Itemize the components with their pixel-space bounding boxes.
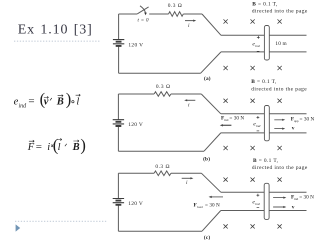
svg-text:t = 0: t = 0: [138, 19, 149, 24]
svg-text:120 V: 120 V: [128, 42, 143, 48]
svg-text:ind: ind: [224, 118, 228, 122]
svg-text:(a): (a): [204, 75, 211, 82]
svg-text:i: i: [188, 23, 190, 29]
svg-text:load: load: [197, 205, 203, 209]
svg-text:= 30 N: = 30 N: [299, 194, 314, 200]
svg-text:B: B: [56, 96, 64, 107]
svg-text:l: l: [76, 96, 79, 107]
svg-text:directed into the page: directed into the page: [251, 86, 307, 92]
svg-text:ind: ind: [255, 202, 260, 206]
svg-text:directed into the page: directed into the page: [252, 165, 308, 171]
svg-text:i: i: [47, 142, 50, 153]
svg-text:(c): (c): [204, 234, 211, 240]
svg-text:B = 0.1 T,: B = 0.1 T,: [251, 79, 277, 85]
svg-text:= 30 N: = 30 N: [300, 117, 315, 123]
svg-text:B = 0.1 T,: B = 0.1 T,: [253, 158, 279, 164]
svg-text:ind: ind: [294, 197, 298, 201]
svg-text:): ): [80, 135, 86, 154]
svg-text:10 m: 10 m: [275, 41, 287, 47]
svg-text:i: i: [188, 102, 190, 108]
svg-text:ind: ind: [255, 44, 260, 48]
svg-text:ind: ind: [19, 103, 28, 109]
svg-text:0.3 Ω: 0.3 Ω: [155, 164, 170, 170]
svg-text:v: v: [292, 205, 295, 211]
svg-text:): ): [66, 90, 72, 109]
svg-text:l: l: [58, 142, 61, 153]
svg-text:B = 0.1 T,: B = 0.1 T,: [252, 2, 278, 8]
svg-text:ind: ind: [256, 124, 261, 128]
svg-text:120 V: 120 V: [128, 122, 143, 128]
svg-text:=: =: [36, 141, 42, 153]
svg-text:0.3 Ω: 0.3 Ω: [156, 84, 171, 90]
svg-text:= 30 N: = 30 N: [229, 116, 244, 122]
svg-text:= 30 N: = 30 N: [205, 203, 220, 209]
svg-text:0.3 Ω: 0.3 Ω: [168, 3, 183, 9]
svg-text:app: app: [294, 119, 299, 123]
svg-text:Ex 1.10 [3]: Ex 1.10 [3]: [18, 22, 93, 37]
svg-text:(b): (b): [203, 155, 210, 162]
svg-text:directed into the page: directed into the page: [252, 9, 308, 15]
svg-text:v: v: [292, 126, 295, 132]
svg-text:F: F: [27, 142, 35, 153]
svg-text:120 V: 120 V: [128, 201, 143, 207]
svg-text:B: B: [72, 142, 80, 153]
svg-text:i: i: [186, 180, 188, 186]
svg-text:=: =: [28, 95, 34, 107]
